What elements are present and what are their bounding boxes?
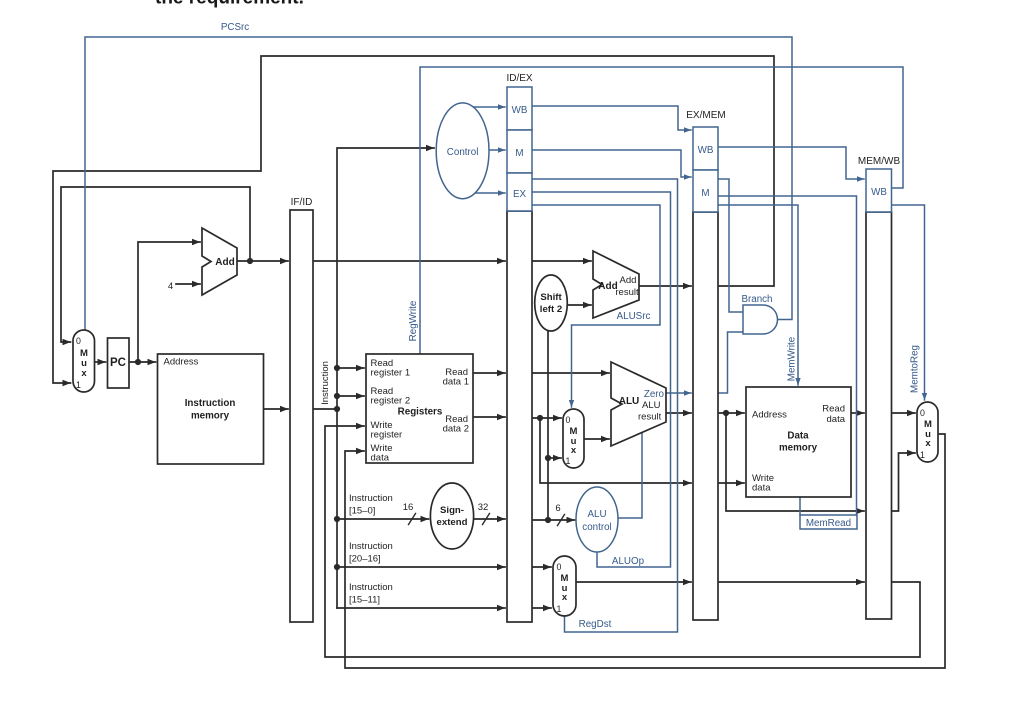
wire immediate to ALUSrc mux input 1 (548, 457, 561, 459)
wire read data 1 to ID/EX (473, 372, 505, 374)
wire read register 2 (337, 395, 364, 397)
tick 6-bit slash (558, 515, 565, 526)
pipeline box ID/EX EX (507, 173, 532, 211)
svg-text:register: register (371, 430, 403, 441)
svg-text:M: M (701, 188, 709, 199)
svg-text:Instruction: Instruction (320, 361, 331, 405)
wire PC+4 through IF/ID to ID/EX (313, 260, 505, 262)
node instruction fan main (334, 406, 340, 412)
wire data memory Read data to MEM/WB (851, 412, 864, 414)
node instruction fan 15-0 (334, 516, 340, 522)
mux ALUSrc (563, 409, 584, 468)
wire immediate to ALU control with 6 (532, 519, 575, 521)
wire Add output to IF/ID (237, 260, 288, 262)
svg-text:Branch: Branch (741, 294, 772, 305)
wire instruction memory to IF/ID (264, 408, 289, 410)
ellipse Control (436, 103, 489, 199)
wire ALU result bypass to MEM/WB (726, 413, 864, 511)
svg-text:x: x (925, 438, 931, 449)
wire MEM/WB ALU result to MemtoReg mux input 1 (892, 453, 916, 511)
wire MemWrite EX/MEM to data memory (718, 205, 798, 385)
pipeline box EX/MEM M (693, 170, 718, 212)
svg-text:RegDst: RegDst (579, 619, 612, 630)
wire ID/EX read data 2 to ALUSrc mux input 0 (532, 417, 561, 419)
svg-text:memory: memory (191, 411, 230, 422)
wire MemRead up into data memory (799, 497, 801, 515)
wire instruction fan vertical and control input (337, 148, 434, 608)
wire Control to ID/EX EX (472, 192, 505, 194)
wire instruction 15-11 to ID/EX (337, 607, 505, 609)
svg-text:1: 1 (920, 450, 925, 460)
svg-text:16: 16 (403, 502, 414, 513)
wire instruction 15-0 to sign extend (337, 518, 429, 520)
svg-text:EX/MEM: EX/MEM (686, 110, 725, 121)
mux RegDst (553, 556, 576, 616)
svg-text:Zero: Zero (644, 389, 665, 400)
wire ID/EX M to EX/MEM M (532, 150, 691, 177)
svg-text:Shift: Shift (540, 292, 562, 303)
svg-text:0: 0 (76, 336, 81, 346)
gate AND branch (743, 305, 778, 334)
wire branch Add result to EX/MEM (639, 285, 691, 287)
ALU (611, 362, 666, 446)
svg-text:Add: Add (620, 275, 637, 286)
svg-text:[15–11]: [15–11] (349, 595, 380, 606)
svg-text:Address: Address (164, 357, 199, 368)
pipeline box MEM/WB WB (866, 169, 892, 212)
wire ALU control to ALU (618, 433, 642, 518)
svg-text:ALUOp: ALUOp (612, 556, 645, 567)
wire Control to ID/EX WB (472, 106, 505, 108)
svg-text:x: x (562, 592, 568, 603)
svg-text:data: data (827, 414, 846, 425)
svg-text:[20–16]: [20–16] (349, 554, 381, 565)
wire Branch signal EX/MEM to AND gate (718, 179, 743, 312)
mux MemtoReg (917, 402, 938, 462)
svg-text:4: 4 (168, 281, 173, 292)
node read data 2 store branch (537, 415, 543, 421)
mux PC source (73, 330, 95, 392)
data memory (746, 387, 851, 497)
wire PC to instruction memory Address (129, 361, 156, 363)
wire PC+4 loopback to PC mux input 0 (61, 187, 250, 342)
wire Zero ALU to EX/MEM (666, 392, 691, 394)
node PC output junction (135, 359, 141, 365)
wire MemtoReg MEM/WB to mux select (892, 205, 925, 400)
svg-text:the requirement.: the requirement. (155, 0, 304, 9)
wire shift left 2 to branch Add (567, 304, 591, 306)
svg-text:register 1: register 1 (371, 368, 411, 379)
svg-text:Control: Control (447, 147, 479, 158)
node immediate to mux branch (545, 455, 551, 461)
wire immediate vertical to shift left 2 (547, 331, 549, 520)
svg-text:0: 0 (557, 562, 562, 572)
svg-text:x: x (571, 445, 577, 456)
wire EX/MEM store data to data memory Write data (718, 482, 744, 484)
adder Add branch target (593, 251, 639, 318)
wire EX/MEM WB to MEM/WB WB (718, 147, 864, 179)
svg-text:data: data (371, 453, 390, 464)
label box MemRead (800, 515, 857, 529)
svg-text:EX: EX (513, 189, 527, 200)
svg-text:ALUSrc: ALUSrc (617, 311, 651, 322)
svg-text:6: 6 (555, 503, 560, 514)
node instruction fan 20-16 (334, 564, 340, 570)
wire ID/EX WB to EX/MEM WB (532, 106, 691, 130)
svg-text:Instruction: Instruction (185, 398, 236, 409)
wire store data down and to EX/MEM (540, 418, 691, 483)
svg-text:Address: Address (752, 410, 787, 421)
svg-text:1: 1 (566, 456, 571, 466)
wire Zero EX/MEM to AND gate (718, 332, 743, 393)
svg-text:MemRead: MemRead (806, 518, 851, 529)
svg-text:WB: WB (698, 145, 714, 156)
wire EX/MEM ALU result to data memory Address (718, 412, 744, 414)
node ALU result branch (723, 410, 729, 416)
svg-text:Data: Data (787, 431, 809, 442)
registers file (366, 354, 473, 463)
instruction memory (158, 354, 264, 464)
svg-text:ALU: ALU (587, 509, 606, 520)
svg-text:ALU: ALU (619, 396, 640, 407)
svg-text:memory: memory (779, 443, 818, 454)
svg-text:ALU: ALU (642, 400, 661, 411)
svg-text:Instruction: Instruction (349, 493, 393, 504)
register ID/EX lower part (507, 211, 532, 622)
wire Control to ID/EX M (489, 149, 505, 151)
svg-text:Add: Add (215, 257, 234, 268)
svg-text:left 2: left 2 (540, 304, 562, 315)
wire mux to PC (95, 361, 106, 363)
svg-text:Instruction: Instruction (349, 582, 393, 593)
svg-text:M: M (515, 148, 523, 159)
svg-text:[15–0]: [15–0] (349, 506, 375, 517)
wire IF/ID instruction to fan node (313, 408, 337, 410)
register IF/ID (290, 210, 313, 622)
svg-text:extend: extend (437, 517, 468, 528)
wire branch-target: EX/MEM to PC mux input 1 (53, 56, 774, 383)
svg-text:Instruction: Instruction (349, 541, 393, 552)
svg-text:IF/ID: IF/ID (291, 197, 313, 208)
svg-text:32: 32 (478, 502, 489, 513)
svg-text:0: 0 (566, 415, 571, 425)
pipeline box EX/MEM WB (693, 127, 718, 170)
svg-text:1: 1 (76, 380, 81, 390)
wire MemRead EX/MEM down right side (718, 196, 857, 515)
ellipse sign extend (430, 483, 473, 549)
svg-text:data: data (752, 483, 771, 494)
wire ALUSrc mux to ALU input 2 (584, 438, 609, 440)
wire ID/EX rd to RegDst mux input 1 (532, 607, 551, 609)
adder Add PC+4 (202, 228, 237, 295)
svg-text:MemWrite: MemWrite (787, 336, 798, 381)
svg-text:1: 1 (557, 604, 562, 614)
svg-text:ID/EX: ID/EX (506, 73, 532, 84)
svg-text:control: control (582, 522, 611, 533)
pipeline box ID/EX M (507, 130, 532, 173)
svg-text:0: 0 (920, 408, 925, 418)
svg-text:Registers: Registers (398, 407, 443, 418)
wire RegWrite MEM/WB back to Registers (420, 67, 903, 353)
node instruction fan read reg 1 (334, 365, 340, 371)
svg-text:RegWrite: RegWrite (408, 300, 419, 341)
wire instruction 20-16 to ID/EX (337, 566, 505, 568)
svg-text:data 2: data 2 (443, 424, 469, 435)
ellipse ALU control (576, 487, 618, 552)
node immediate line branch (545, 517, 551, 523)
wire constant 4 to Add input 2 (176, 283, 200, 285)
register MEM/WB lower part (866, 212, 892, 619)
svg-text:MEM/WB: MEM/WB (858, 156, 901, 167)
wire EX/MEM write register number to MEM/WB (718, 581, 864, 583)
svg-text:WB: WB (871, 187, 887, 198)
wire sign extend to ID/EX (474, 518, 505, 520)
node Add output junction (247, 258, 253, 264)
svg-text:Read: Read (822, 404, 845, 415)
svg-text:Sign-: Sign- (440, 505, 464, 516)
pipeline box ID/EX WB (507, 87, 532, 130)
wire PCSrc from branch gate to PC mux select (85, 37, 792, 329)
svg-text:PC: PC (110, 357, 126, 369)
wire MEM/WB write register loopback to Registers (325, 426, 920, 657)
wire ALU result to EX/MEM (666, 412, 691, 414)
tick 32-bit slash (483, 514, 490, 525)
svg-text:MemtoReg: MemtoReg (910, 345, 921, 393)
svg-text:x: x (81, 368, 87, 379)
ellipse shift left 2 (535, 275, 568, 331)
register EX/MEM lower part (693, 212, 718, 620)
wire RegDst from ID/EX EX box to RegDst mux (532, 179, 678, 632)
PC (108, 338, 130, 388)
wire read register 1 (337, 367, 364, 369)
wire RegDst mux to EX/MEM (576, 581, 691, 583)
wire MemtoReg mux output loopback to Registers write data (345, 434, 945, 668)
wire read data 2 to ID/EX (473, 416, 505, 418)
wire ID/EX rt to RegDst mux input 0 (532, 566, 551, 568)
tick 16-bit slash (409, 514, 416, 525)
wire PC up to Add input 1 (138, 242, 200, 362)
wire ALUSrc from ID/EX EX box to ALUSrc mux (532, 205, 660, 407)
svg-text:result: result (615, 287, 639, 298)
node instruction fan read reg 2 (334, 393, 340, 399)
wire ALUOp from ID/EX EX box to ALU control (532, 192, 671, 567)
wire ID/EX read data 1 to ALU input 1 (532, 372, 609, 374)
wire MEM/WB read data to MemtoReg mux input 0 (892, 412, 916, 414)
svg-text:WB: WB (512, 105, 528, 116)
svg-text:result: result (638, 412, 662, 423)
wire ID/EX PC+4 to branch Add (532, 260, 591, 262)
svg-text:PCSrc: PCSrc (221, 22, 249, 33)
svg-text:data 1: data 1 (443, 377, 469, 388)
svg-text:register 2: register 2 (371, 396, 411, 407)
